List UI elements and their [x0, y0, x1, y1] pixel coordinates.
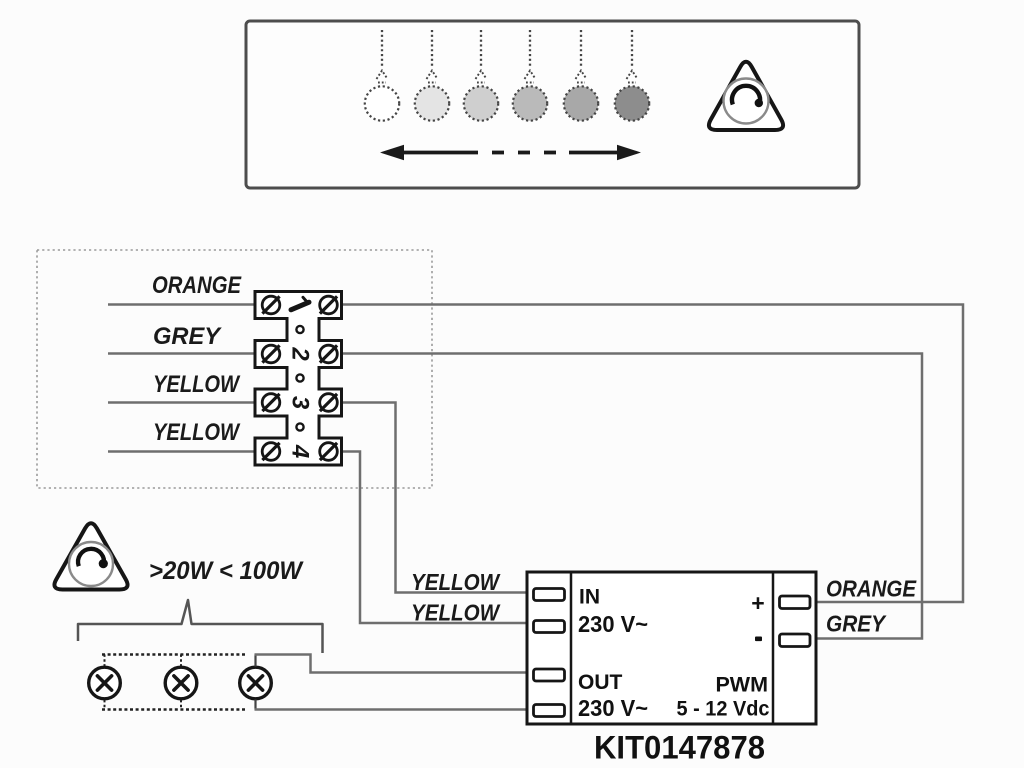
svg-text:YELLOW: YELLOW	[153, 371, 241, 398]
svg-text:230 V~: 230 V~	[578, 611, 648, 637]
dotted lamp bus top	[102, 653, 247, 656]
neck hole 2-3	[296, 374, 303, 381]
svg-text:OUT: OUT	[578, 671, 623, 694]
screw terminal 3 right	[320, 394, 338, 412]
text -	[755, 637, 762, 642]
svg-text:>20W < 100W: >20W < 100W	[149, 557, 304, 585]
pad +	[780, 596, 811, 609]
pendant lamp 5	[564, 30, 598, 121]
wire yellow 2 right (terminal 4 to module IN)	[342, 452, 531, 624]
screw terminal 2 right	[320, 345, 338, 363]
screw terminal 1 right	[320, 296, 338, 314]
svg-text:YELLOW: YELLOW	[411, 600, 501, 626]
dimmer warning triangle (bottom)	[54, 523, 127, 589]
screw terminal 3 left	[262, 394, 280, 412]
wire yellow 2 left	[108, 450, 255, 453]
lamp L1	[89, 667, 121, 699]
pendant lamp 3	[464, 30, 498, 121]
pad -	[780, 634, 811, 647]
svg-text:2: 2	[287, 346, 314, 361]
lamp L2	[165, 667, 197, 699]
wire lamps to OUT N	[255, 708, 531, 711]
lamp L1 stubs	[104, 655, 106, 667]
module right divider	[772, 572, 775, 724]
pendant lamp 6 (full)	[615, 30, 649, 121]
wire orange right (terminal 1 to module +)	[342, 305, 964, 603]
wire yellow left	[108, 401, 255, 404]
lamp L3	[240, 667, 272, 699]
svg-text:3: 3	[287, 396, 314, 410]
svg-text:ORANGE: ORANGE	[826, 576, 917, 602]
pad OUT N	[534, 705, 565, 717]
svg-text:GREY: GREY	[826, 611, 887, 637]
svg-text:PWM: PWM	[715, 673, 768, 697]
pendant lamp 4	[513, 30, 547, 121]
module left divider	[570, 572, 573, 724]
dashed junction box	[37, 250, 432, 488]
neck hole 1-2	[296, 326, 303, 333]
screw terminal 4 left	[262, 443, 280, 461]
top panel box	[246, 21, 859, 188]
wire lamps to OUT L	[255, 655, 531, 673]
screw terminal 4 right	[320, 443, 338, 461]
pad OUT L	[534, 669, 565, 681]
svg-text:230 V~: 230 V~	[578, 695, 648, 721]
pad IN L	[534, 589, 565, 601]
dimmer warning triangle (top)	[709, 62, 783, 130]
svg-text:YELLOW: YELLOW	[411, 569, 501, 595]
svg-text:4: 4	[287, 444, 314, 458]
brightness range arrow	[380, 145, 641, 161]
svg-text:GREY: GREY	[153, 323, 222, 350]
svg-text:IN: IN	[579, 586, 600, 609]
terminal block TB1 outline	[255, 292, 342, 466]
svg-text:ORANGE: ORANGE	[152, 272, 242, 299]
pad IN N	[534, 621, 565, 633]
lamp L2 stubs	[180, 655, 182, 667]
pendant lamp 2	[415, 30, 449, 121]
wire orange left	[108, 303, 255, 306]
pin number 1	[291, 297, 309, 310]
svg-text:5 - 12 Vdc: 5 - 12 Vdc	[677, 697, 770, 721]
group bracket	[78, 600, 323, 653]
lamp L3 stubs	[254, 655, 256, 667]
svg-text:YELLOW: YELLOW	[153, 419, 241, 446]
screw terminal 2 left	[262, 345, 280, 363]
svg-text:KIT0147878: KIT0147878	[594, 730, 765, 766]
wire yellow right (terminal 3 to module IN)	[342, 403, 531, 593]
screw terminal 1 left	[262, 296, 280, 314]
wire grey left	[108, 352, 255, 355]
dimmer module U1 box	[527, 572, 816, 724]
wire grey right (terminal 2 to module -)	[342, 354, 923, 639]
neck hole 3-4	[296, 423, 303, 430]
svg-text:+: +	[751, 590, 764, 616]
pendant lamp 1 (off)	[365, 30, 399, 121]
dotted lamp bus bottom	[102, 708, 247, 711]
